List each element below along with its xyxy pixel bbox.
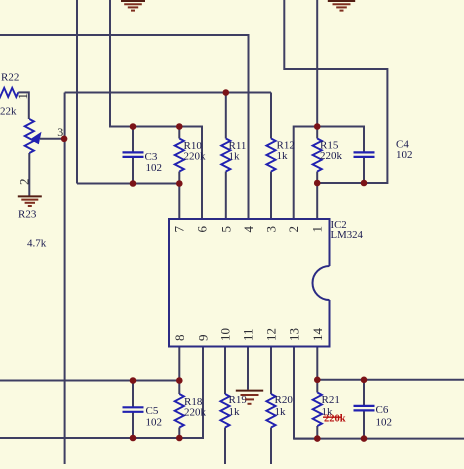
- wire R15 leads: [316, 127, 318, 184]
- svg-text:R23: R23: [18, 208, 37, 220]
- svg-text:13: 13: [287, 328, 302, 341]
- junction C5 bottom: [130, 435, 137, 442]
- junction R18 bottom: [176, 435, 183, 442]
- svg-text:22k: 22k: [0, 106, 17, 118]
- wire R23 pot bottom lead: [28, 153, 30, 196]
- svg-text:R21: R21: [322, 394, 340, 406]
- svg-text:220k: 220k: [320, 150, 343, 162]
- wire pot wiper to node: [40, 138, 64, 140]
- wire R18 leads: [178, 381, 180, 439]
- svg-text:102: 102: [146, 162, 163, 174]
- junction C6 bottom: [361, 435, 368, 442]
- ground (pot R23): [18, 196, 42, 206]
- svg-text:1: 1: [15, 93, 30, 100]
- svg-text:14: 14: [310, 328, 325, 342]
- wire pin 5 lower lead: [225, 172, 227, 220]
- junction R10 bottom: [176, 180, 183, 187]
- wire bottom-left upper rail: [0, 380, 179, 382]
- value label 220k (red, struck): [323, 414, 346, 425]
- junction C3 top: [130, 123, 137, 130]
- wire bottom-right upper rail: [317, 379, 464, 381]
- ground (top right): [328, 1, 355, 11]
- svg-text:102: 102: [396, 149, 413, 161]
- ground (top left): [121, 1, 145, 11]
- junction C3 bottom: [130, 180, 137, 187]
- svg-text:4: 4: [241, 226, 256, 233]
- svg-text:220k: 220k: [324, 414, 346, 425]
- junction R15 bottom: [314, 180, 321, 187]
- svg-text:1k: 1k: [229, 406, 241, 418]
- svg-text:10: 10: [218, 328, 233, 341]
- svg-text:2: 2: [286, 226, 301, 233]
- wire pin 8: [178, 347, 180, 381]
- svg-text:R22: R22: [1, 71, 19, 83]
- wire pin 2: [294, 127, 318, 220]
- resistor R19: [220, 394, 247, 428]
- wire pin 1: [316, 183, 318, 219]
- wire pin 13: [294, 347, 317, 439]
- svg-text:4.7k: 4.7k: [27, 238, 47, 250]
- wire bottom-left lower rail to pin 9: [0, 347, 203, 439]
- wire vertical x=64.6 to bottom edge: [64, 93, 66, 465]
- wire vertical x=317 from top edge: [316, 0, 318, 127]
- wire C5 leads: [132, 381, 134, 439]
- svg-text:1: 1: [310, 226, 325, 233]
- svg-text:2: 2: [16, 179, 31, 186]
- wire C6 leads: [363, 380, 365, 439]
- svg-text:1k: 1k: [277, 150, 289, 162]
- svg-text:12: 12: [264, 328, 279, 341]
- resistor R21: [313, 393, 340, 427]
- wire C3/R10 bottom rail: [77, 183, 179, 185]
- svg-text:102: 102: [376, 417, 393, 429]
- svg-text:1k: 1k: [229, 151, 241, 163]
- junction pin 5 net: [223, 89, 230, 96]
- svg-text:5: 5: [218, 226, 233, 233]
- junction R15 top: [314, 123, 321, 130]
- svg-text:8: 8: [172, 335, 187, 342]
- svg-text:C5: C5: [146, 405, 159, 417]
- junction R10 top: [176, 123, 183, 130]
- wire R10 leads: [178, 127, 180, 184]
- resistor R15: [313, 139, 343, 172]
- svg-text:1k: 1k: [275, 406, 287, 418]
- ground (pin 11): [236, 391, 263, 404]
- wire feedback loop right: [284, 0, 387, 183]
- wire R21 leads: [316, 380, 318, 439]
- capacitor C5: [123, 405, 163, 429]
- wire pin 11 ground stem: [247, 347, 249, 390]
- junction C6 top: [361, 377, 368, 384]
- capacitor C6: [354, 404, 393, 429]
- wire pin 3 upper lead: [270, 93, 272, 139]
- resistor R12: [266, 139, 294, 172]
- op-amp U IC2 LM324: [169, 219, 363, 347]
- resistor R11: [221, 139, 246, 172]
- wire C4 top branch: [317, 127, 364, 153]
- wire pin 3 lower lead: [270, 172, 272, 220]
- wire pin 7: [178, 184, 180, 220]
- resistor R10: [175, 139, 206, 172]
- wire pin 14: [316, 347, 318, 380]
- wire R22 lead and corner: [18, 92, 29, 119]
- capacitor C3: [123, 151, 163, 174]
- junction pot wiper: [61, 136, 68, 143]
- svg-text:3: 3: [264, 226, 279, 233]
- svg-text:9: 9: [196, 335, 211, 342]
- wire pin 5 upper lead: [225, 93, 227, 139]
- svg-text:7: 7: [172, 226, 187, 233]
- wire net at y=92: [65, 92, 271, 94]
- wire C4 bottom lead: [363, 157, 365, 183]
- svg-text:102: 102: [146, 417, 163, 429]
- wire pin 12 / R20 leads: [270, 347, 272, 465]
- junction C5 top: [130, 377, 137, 384]
- junction C4 bottom: [361, 180, 368, 187]
- resistor R20: [266, 394, 293, 428]
- wire vertical from top edge x=77: [76, 0, 78, 184]
- svg-text:11: 11: [241, 328, 256, 341]
- svg-text:220k: 220k: [184, 151, 207, 163]
- wire pin 10 / R19 leads: [224, 347, 226, 465]
- svg-text:R20: R20: [275, 394, 294, 406]
- resistor R22: [0, 71, 19, 117]
- svg-text:220k: 220k: [184, 407, 207, 419]
- svg-text:C6: C6: [376, 404, 389, 416]
- wire C3 leads: [132, 127, 134, 184]
- junction R21 bottom: [314, 435, 321, 442]
- svg-text:LM324: LM324: [331, 229, 364, 241]
- junction R21 top: [314, 377, 321, 384]
- wire bottom-right lower rail: [294, 438, 464, 440]
- wire from top edge to C3/R10 top rail and pin 6: [110, 0, 202, 219]
- wire GND rail to pin 4: [0, 35, 249, 219]
- resistor R18: [175, 394, 207, 428]
- svg-text:6: 6: [195, 226, 210, 233]
- junction R18 top: [176, 377, 183, 384]
- capacitor C4: [354, 138, 413, 161]
- potentiometer R23: [18, 119, 47, 250]
